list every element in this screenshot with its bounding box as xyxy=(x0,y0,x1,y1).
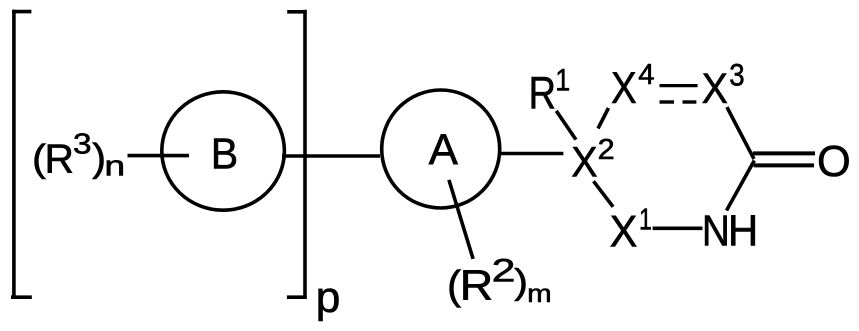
double bond X4 X3 dashed line xyxy=(660,100,697,103)
ring B circle xyxy=(162,92,285,210)
bond X2 to X1 xyxy=(594,181,614,207)
svg-text:X: X xyxy=(611,62,637,112)
bond ring A to (R2)m xyxy=(449,180,473,259)
svg-text:1: 1 xyxy=(555,64,570,98)
bond (R3)n to ring B xyxy=(128,154,190,158)
svg-text:2: 2 xyxy=(492,253,516,289)
svg-text:m: m xyxy=(527,279,552,308)
svg-text:R: R xyxy=(529,68,557,119)
double bond X4 X3 solid line xyxy=(660,84,698,87)
left bracket xyxy=(11,10,32,299)
svg-text:A: A xyxy=(429,127,459,175)
bond ring B to ring A xyxy=(282,154,380,158)
bond X3 to carbonyl carbon xyxy=(727,107,754,159)
svg-text:B: B xyxy=(211,130,238,178)
svg-text:): ) xyxy=(514,262,528,302)
right bracket xyxy=(287,10,307,299)
bond X2 to X4 xyxy=(598,108,609,129)
bond ring A to X2 xyxy=(498,152,563,156)
svg-text:2: 2 xyxy=(598,134,615,166)
svg-text:O: O xyxy=(817,138,851,186)
svg-text:3: 3 xyxy=(729,58,744,93)
ring A circle xyxy=(382,90,500,208)
svg-text:H: H xyxy=(728,207,758,256)
bond R1 to X2 xyxy=(556,111,576,140)
svg-text:X: X xyxy=(610,207,638,257)
svg-text:3: 3 xyxy=(73,128,92,160)
bond carbonyl to NH xyxy=(727,161,755,211)
carbonyl C=O double bond xyxy=(753,153,815,165)
svg-text:X: X xyxy=(702,64,728,112)
svg-text:R: R xyxy=(460,262,494,309)
svg-text:n: n xyxy=(104,150,125,182)
svg-text:X: X xyxy=(571,138,597,185)
bond X1 to NH xyxy=(653,227,703,231)
svg-text:1: 1 xyxy=(639,203,652,237)
svg-text:R: R xyxy=(45,135,74,181)
svg-text:N: N xyxy=(702,206,730,255)
svg-text:4: 4 xyxy=(638,59,654,91)
svg-text:p: p xyxy=(316,273,341,322)
